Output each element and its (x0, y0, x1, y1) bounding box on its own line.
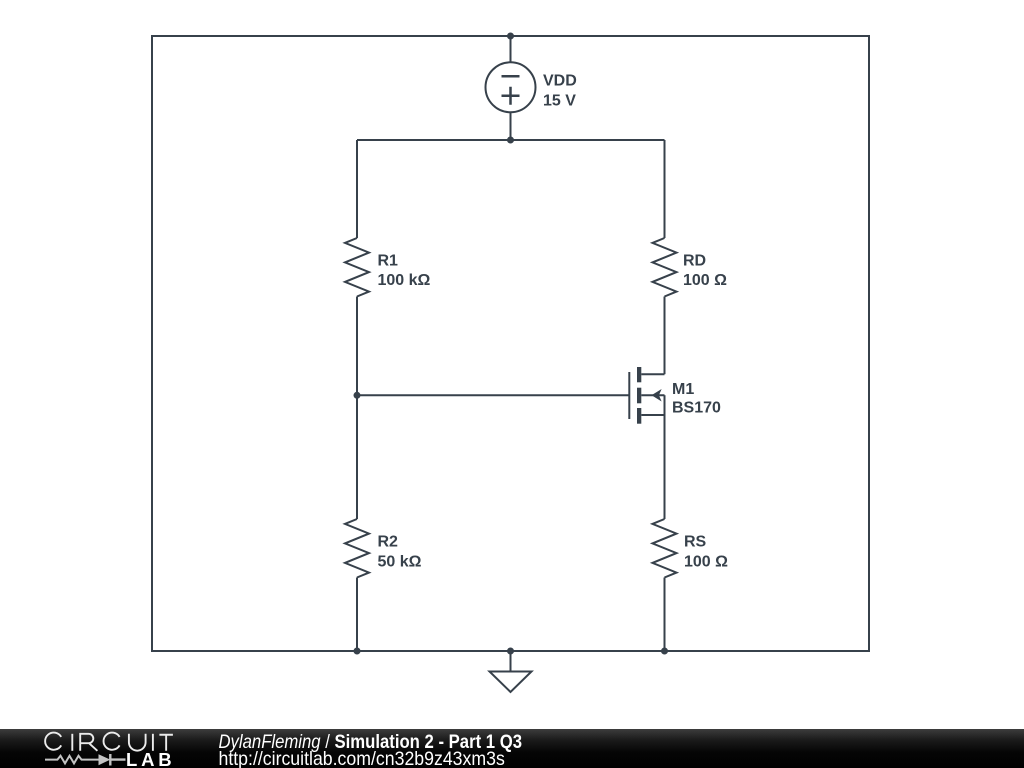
logo text CIRCUIT (drawn thin geometric letters) (45, 733, 173, 751)
wire: M1 body-source junction down to RS (664, 395, 666, 519)
svg-text:15 V: 15 V (543, 93, 576, 110)
logo resistor zigzag (45, 756, 99, 764)
svg-text:http://circuitlab.com/cn32b9z4: http://circuitlab.com/cn32b9z43xm3s (219, 748, 505, 768)
transistor M1 body arrow (653, 391, 660, 400)
svg-text:VDD: VDD (543, 73, 577, 90)
transistor M1 channel bar (drain) (637, 367, 641, 382)
resistor RS zigzag (653, 519, 677, 578)
wire: VDD source top lead (510, 36, 512, 63)
junction dot: ground rail center (GND) (507, 648, 514, 655)
junction dot: ground rail left (R2) (354, 648, 361, 655)
wire: R1 bottom to gate node (356, 297, 358, 396)
wire: outer loop (VDD rail top, left/right sides, ground rail bottom) (152, 36, 869, 651)
svg-text:BS170: BS170 (672, 399, 721, 416)
svg-text:M1: M1 (672, 381, 694, 398)
wire: RS bottom to ground rail (664, 578, 666, 652)
voltage source V1 plus sign (502, 87, 520, 105)
svg-text:100 Ω: 100 Ω (683, 272, 727, 289)
svg-text:LAB: LAB (126, 749, 175, 768)
resistor R1 zigzag (345, 238, 369, 297)
wire: gate wire from node A to M1 gate (357, 394, 629, 396)
voltage source V1 circle (486, 62, 536, 112)
transistor M1 body pin (641, 394, 664, 396)
wire: R2 bottom to ground rail (356, 578, 358, 652)
svg-text:R1: R1 (378, 252, 399, 269)
transistor M1 gate line (628, 372, 630, 419)
transistor M1 channel bar (body) (637, 388, 641, 404)
junction dot: inner rail / VDD (507, 137, 514, 144)
resistor R2 zigzag (345, 519, 369, 578)
wire: RD bottom to M1 drain (664, 297, 666, 375)
svg-text:RD: RD (683, 252, 706, 269)
ground symbol triangle (490, 651, 532, 692)
junction dot: top rail / VDD (507, 33, 514, 40)
resistor RD zigzag (653, 238, 677, 297)
transistor M1 channel bar (source) (637, 408, 641, 424)
wire: inner supply rail (357, 139, 665, 141)
svg-text:100 Ω: 100 Ω (684, 554, 728, 571)
svg-text:R2: R2 (378, 534, 399, 551)
voltage source V1 minus sign (502, 75, 520, 78)
wire: right branch from rail to RD (664, 140, 666, 238)
junction dot: ground rail right (RS) (661, 648, 668, 655)
transistor M1 source pin (641, 414, 664, 416)
wire: VDD source bottom lead (510, 112, 512, 140)
footer bar (0, 729, 1024, 768)
wire: gate node to R2 (356, 395, 358, 519)
svg-text:50 kΩ: 50 kΩ (378, 554, 422, 571)
svg-text:RS: RS (684, 534, 707, 551)
logo diode (99, 754, 111, 765)
wire: left branch from rail to R1 (356, 140, 358, 238)
junction dot: node A (gate / R1 / R2) (354, 392, 361, 399)
transistor M1 drain pin (641, 373, 664, 375)
svg-text:100 kΩ: 100 kΩ (378, 272, 431, 289)
